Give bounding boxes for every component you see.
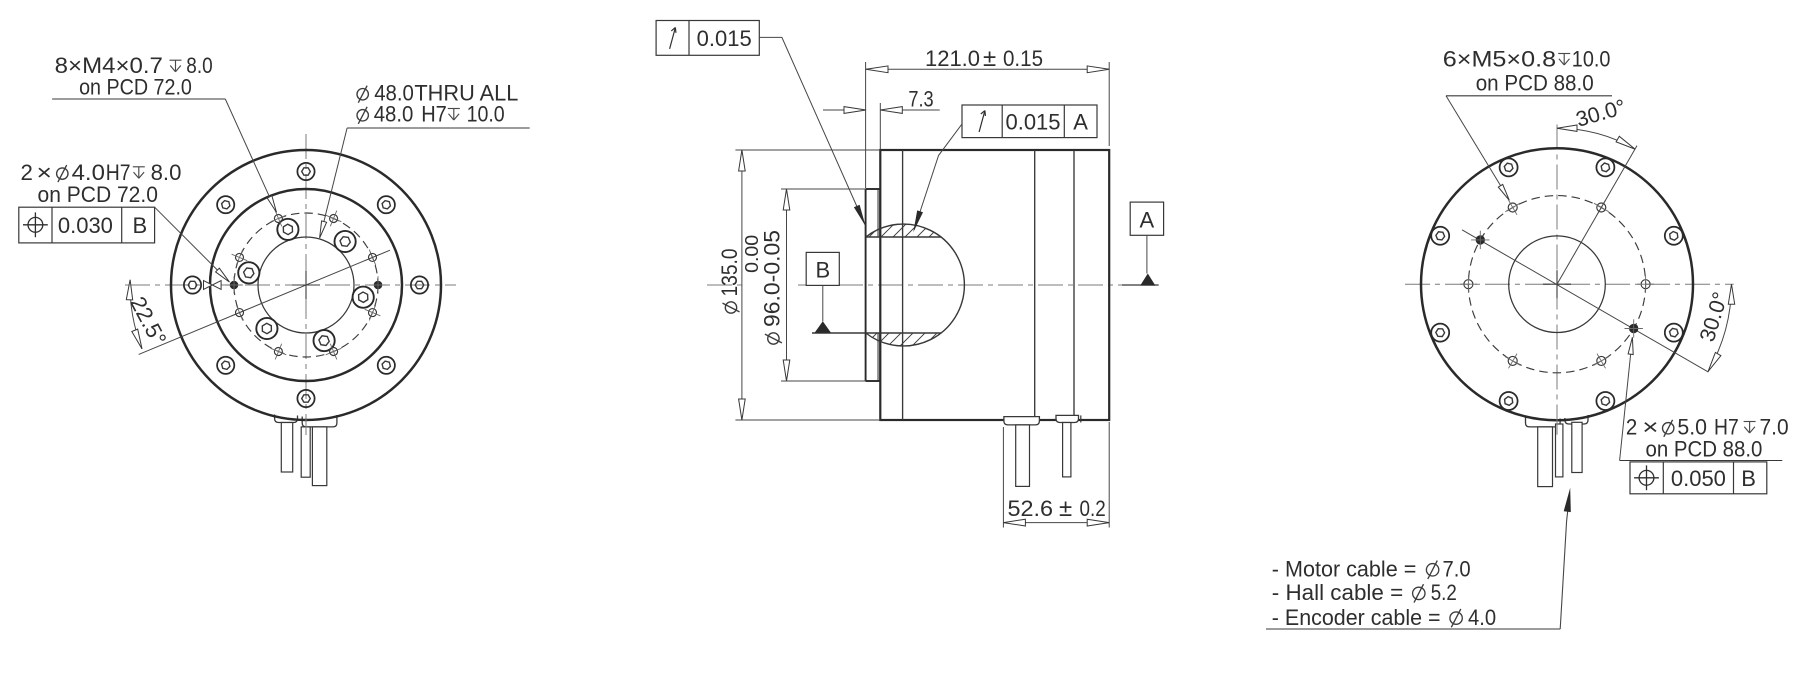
left view outer screw 2 at 45 deg bbox=[378, 196, 395, 213]
right view M5 tapped hole 2 at 60 deg bbox=[1594, 200, 1609, 215]
dim D96 dia symbol rotated bbox=[765, 333, 782, 344]
left view M4 tapped hole 2 at 67.5 deg bbox=[326, 211, 342, 227]
label 2xD4 FCF tolerance text bbox=[58, 213, 113, 238]
left view inner hex screw 2 at 108 deg bbox=[277, 219, 298, 240]
svg-text:121.0: 121.0 bbox=[925, 46, 980, 71]
cable note leader arrow bbox=[1564, 488, 1571, 512]
svg-text:5.2: 5.2 bbox=[1431, 580, 1457, 605]
right view outer screw 3 at 112.5 deg bbox=[1500, 158, 1518, 176]
FCF runout A tolerance text bbox=[1005, 110, 1060, 135]
dim 52.6 extension left bbox=[1002, 427, 1004, 528]
right view cable gland right bbox=[1565, 415, 1588, 424]
left view outer screw 6 at 225 deg bbox=[217, 357, 234, 374]
FCF runout 0.015 symbol bbox=[670, 28, 676, 49]
FCF runout 0.015 box bbox=[656, 21, 759, 56]
right view PCD88 bolt circle (dashed) bbox=[1468, 196, 1645, 373]
label 6xM5 leader arrow bbox=[1498, 184, 1509, 200]
svg-text:on PCD 88.0: on PCD 88.0 bbox=[1476, 71, 1594, 96]
left view inner hex screw 1 at 48 deg bbox=[335, 231, 356, 252]
left view dowel hole right (PCD72 0deg) bbox=[369, 276, 387, 294]
left view cable gland left bbox=[275, 415, 298, 423]
right view outer circle D135 bbox=[1421, 148, 1693, 420]
label 2xD4 FCF position symbol bbox=[23, 212, 48, 237]
label 2xD4 dia symbol bbox=[57, 165, 68, 182]
svg-text:0.015: 0.015 bbox=[1005, 110, 1060, 135]
right view 150-330 construction line bbox=[1462, 230, 1708, 372]
label D48 line1 text bbox=[374, 80, 518, 105]
left view 22.5 dim arrow top bbox=[126, 280, 132, 300]
svg-text:0.050: 0.050 bbox=[1671, 466, 1726, 491]
right view M5 tapped hole 3 at 120 deg bbox=[1505, 200, 1520, 215]
left view outer screw 3 at 90 deg bbox=[297, 163, 314, 180]
left view hall cable bbox=[281, 423, 292, 473]
cable note underline bbox=[1266, 628, 1560, 630]
svg-text:4.0: 4.0 bbox=[1468, 605, 1496, 630]
label 8xM4 line2 text bbox=[79, 75, 192, 100]
left view motor cable bbox=[312, 427, 326, 486]
right view 30deg top arc bbox=[1557, 128, 1635, 149]
middle view motor cable bbox=[1016, 425, 1030, 487]
label 6xM5 line1 depth value bbox=[1572, 47, 1611, 72]
svg-text:A: A bbox=[1073, 110, 1088, 135]
left view M4 tapped hole 1 at 22.5 deg bbox=[365, 250, 381, 266]
datum B box bbox=[806, 252, 839, 285]
right view hall cable bbox=[1572, 422, 1582, 472]
svg-text:10.0: 10.0 bbox=[467, 102, 505, 127]
right view dowel hole at 330deg bbox=[1625, 319, 1643, 337]
svg-text:96.0-0.05: 96.0-0.05 bbox=[760, 230, 785, 327]
left view inner hex screw 4 at 228 deg bbox=[256, 318, 277, 339]
cable note line3 bbox=[1272, 605, 1496, 630]
datum A box bbox=[1130, 202, 1163, 235]
svg-text:- Hall cable =: - Hall cable = bbox=[1272, 580, 1403, 605]
svg-text:10.0: 10.0 bbox=[1572, 47, 1611, 72]
left view inner hex screw 3 at 168 deg bbox=[238, 262, 259, 283]
dim D96 extension bottom bbox=[781, 380, 866, 382]
datum B stem bbox=[822, 285, 824, 321]
left view M4 tapped hole 8 at 337.5 deg bbox=[365, 305, 381, 321]
right view center cross bbox=[1543, 270, 1571, 298]
svg-text:7.0: 7.0 bbox=[1443, 557, 1471, 582]
left view inner hex screw 5 at 288 deg bbox=[314, 330, 335, 351]
right view 30deg right arrow top bbox=[1728, 284, 1734, 304]
label D48 line1 dia symbol bbox=[357, 86, 368, 103]
middle view inner line x1035 bbox=[1034, 150, 1036, 420]
middle view gray flange section strip top bbox=[877, 189, 881, 237]
right view 30deg top text bbox=[1573, 95, 1628, 132]
left view PCD72 bolt circle (dashed) bbox=[234, 213, 378, 357]
left view 22.5 deg dimension arc bbox=[130, 280, 142, 349]
label 8xM4 leader bbox=[225, 99, 274, 209]
svg-text:48.0: 48.0 bbox=[374, 102, 414, 127]
dim 121.0 extension left bbox=[865, 62, 867, 188]
middle view inner line x1074 bbox=[1073, 150, 1075, 420]
left view M4 tapped hole 5 at 202.5 deg bbox=[232, 305, 248, 321]
dim 7.3 text bbox=[908, 87, 933, 112]
svg-text:135.0: 135.0 bbox=[717, 249, 742, 297]
label 2xD5 depth symbol bbox=[1744, 422, 1756, 434]
label 2xD5 FCF tolerance text bbox=[1671, 466, 1726, 491]
label 2xD4 line2 text bbox=[38, 182, 158, 207]
dim D135 dia symbol rotated bbox=[723, 302, 740, 313]
dim 52.6 arrow right bbox=[1087, 519, 1109, 526]
left view horizontal centerline bbox=[125, 284, 456, 286]
middle view bore bottom line bbox=[812, 332, 941, 334]
middle view boss front face line bbox=[865, 189, 867, 381]
middle view hatched cap top bbox=[856, 222, 956, 238]
svg-text:0.015: 0.015 bbox=[697, 26, 752, 51]
right view vertical centerline lower overlay bbox=[1556, 418, 1558, 435]
right view encoder cable bbox=[1556, 424, 1563, 477]
middle view gray flange section strip bottom bbox=[877, 333, 881, 381]
right view outer screw 5 at 202.5 deg bbox=[1431, 324, 1449, 342]
cable note line2 bbox=[1272, 580, 1457, 605]
left view dowel hole left (PCD72 180deg) bbox=[225, 276, 243, 294]
right view 30deg right arrow bottom bbox=[1708, 353, 1721, 372]
left view M4 tapped hole 3 at 112.5 deg bbox=[271, 211, 287, 227]
svg-text:2: 2 bbox=[1626, 415, 1637, 440]
dim D96 line bbox=[786, 189, 788, 381]
label 2xD4 line1 prefix bbox=[21, 160, 52, 185]
right view 30deg right arc bbox=[1708, 284, 1731, 371]
left view center cross bbox=[292, 271, 320, 299]
dim 7.3 arrow left bbox=[844, 107, 866, 114]
right view motor cable bbox=[1538, 427, 1553, 487]
label 2xD4 leader bbox=[155, 207, 228, 280]
dim D135 arrow bottom bbox=[739, 399, 746, 420]
middle view boss top edge bbox=[866, 188, 881, 190]
middle view body outline bbox=[880, 150, 1109, 420]
right view vertical centerline bbox=[1556, 125, 1558, 435]
FCF runout 0.015 leader arrow bbox=[854, 205, 866, 226]
label 2xD4 line1 depth value bbox=[151, 160, 182, 185]
dim D96 extension top bbox=[781, 188, 866, 190]
label 8xM4 line1 depth value bbox=[186, 53, 212, 78]
left view outer screw 8 at 315 deg bbox=[378, 357, 395, 374]
cable note leader bbox=[1560, 497, 1569, 629]
FCF runout 0.015 text bbox=[697, 26, 752, 51]
datum A letter bbox=[1140, 208, 1155, 233]
FCF runout A datum text bbox=[1073, 110, 1088, 135]
svg-text:- Motor cable =: - Motor cable = bbox=[1272, 557, 1417, 582]
svg-text:±: ± bbox=[1059, 495, 1072, 522]
svg-text:52.6: 52.6 bbox=[1008, 496, 1054, 521]
middle view horizontal centerline bbox=[707, 284, 1159, 286]
right view outer screw 1 at 22.5 deg bbox=[1665, 227, 1683, 245]
dim D135 text bbox=[717, 249, 742, 297]
svg-text:B: B bbox=[815, 258, 830, 283]
right view dowel hole at 150deg bbox=[1471, 231, 1489, 249]
left view outer screw 1 at 0 deg bbox=[411, 276, 428, 293]
label 8xM4 depth symbol bbox=[170, 60, 182, 71]
svg-text:H7: H7 bbox=[421, 102, 447, 127]
right view horizontal centerline bbox=[1405, 283, 1734, 285]
left view outer screw 5 at 180 deg bbox=[184, 276, 201, 293]
dim 121.0 arrow right bbox=[1087, 66, 1109, 73]
dim 7.3 line right tail bbox=[880, 109, 939, 111]
dim 121.0 line bbox=[866, 68, 1109, 70]
label 2xD5 line1 mid bbox=[1677, 415, 1738, 440]
svg-text:A: A bbox=[1140, 208, 1155, 233]
dim D135 extension bottom bbox=[735, 419, 880, 421]
label 2xD5 FCF box bbox=[1630, 462, 1767, 494]
svg-text:0.2: 0.2 bbox=[1080, 496, 1106, 521]
label 6xM5 leader bbox=[1446, 96, 1508, 198]
svg-text:7.3: 7.3 bbox=[908, 87, 933, 112]
label D48 leader bbox=[322, 128, 348, 231]
middle view cable gland right bbox=[1056, 415, 1079, 422]
middle view hub circle arc bbox=[866, 224, 965, 346]
left view vertical centerline lower overlay bbox=[305, 419, 307, 435]
dim D96 upper tol text bbox=[741, 235, 762, 273]
svg-text:6×M5×0.8: 6×M5×0.8 bbox=[1443, 47, 1556, 72]
label 2xD4 FCF box bbox=[19, 207, 155, 243]
left view M4 tapped hole 7 at 292.5 deg bbox=[326, 344, 342, 360]
middle view encoder cable bbox=[1063, 423, 1071, 477]
dim 7.3 extension right bbox=[879, 103, 881, 149]
left view 22.5 deg text bbox=[125, 292, 171, 349]
dim D96 text bbox=[760, 230, 785, 327]
left view outer circle D135 bbox=[171, 150, 441, 420]
dim D135 line bbox=[741, 150, 743, 420]
label 6xM5 underline bbox=[1446, 95, 1612, 97]
label 2xD4 depth symbol bbox=[133, 167, 145, 179]
svg-text:0.030: 0.030 bbox=[58, 213, 113, 238]
label 8xM4 underline bbox=[52, 98, 225, 100]
left view runout butterfly arrows at pilot edge bbox=[204, 281, 222, 290]
label 6xM5 depth symbol bbox=[1558, 54, 1570, 66]
FCF runout 0.015 leader bbox=[759, 37, 865, 224]
cable note line1 bbox=[1272, 557, 1471, 582]
dim 52.6 line bbox=[1003, 522, 1109, 524]
label 2xD5 FCF datum letter bbox=[1741, 466, 1756, 491]
svg-text:on PCD 88.0: on PCD 88.0 bbox=[1646, 436, 1763, 461]
right view 60deg construction line bbox=[1557, 146, 1637, 285]
right view outer screw 2 at 67.5 deg bbox=[1596, 158, 1614, 176]
right view M5 tapped hole 1 at 0 deg bbox=[1637, 276, 1654, 293]
dim 121.0 text bbox=[925, 45, 1043, 72]
right view 30deg top arrow right bbox=[1616, 136, 1635, 149]
label D48 line2 text bbox=[374, 102, 447, 127]
left view outer screw 7 at 270 deg bbox=[297, 390, 314, 407]
svg-text:2: 2 bbox=[21, 160, 33, 185]
right view 30deg right text bbox=[1695, 289, 1733, 344]
left view outer screw 4 at 135 deg bbox=[217, 196, 234, 213]
datum A stem bbox=[1146, 235, 1148, 273]
label D48 leader arrow bbox=[320, 221, 327, 238]
label 2xD5 underline bbox=[1620, 460, 1783, 462]
dim D96 arrow bottom bbox=[783, 360, 790, 381]
right view outer screw 6 at 247.5 deg bbox=[1500, 392, 1518, 410]
right view outer screw 4 at 157.5 deg bbox=[1431, 227, 1449, 245]
svg-text:- Encoder cable =: - Encoder cable = bbox=[1272, 605, 1441, 630]
dim 7.3 arrow right bbox=[880, 107, 902, 114]
middle view inner line x903 bbox=[902, 150, 904, 420]
label 2xD5 leader arrow bbox=[1628, 337, 1633, 354]
label 2xD5 line1 depth value bbox=[1760, 415, 1789, 440]
FCF runout 0.015 A box bbox=[962, 105, 1097, 138]
svg-text:B: B bbox=[133, 213, 148, 238]
left view inner hex screw 6 at 348 deg bbox=[353, 287, 374, 308]
left view vertical centerline bbox=[305, 134, 307, 435]
label D48 underline bbox=[347, 127, 530, 129]
label D48 line2 depth value bbox=[467, 102, 505, 127]
label D48 line2 dia symbol bbox=[357, 107, 368, 124]
dim 52.6 text bbox=[1008, 495, 1106, 522]
left view M4 tapped hole 4 at 157.5 deg bbox=[232, 250, 248, 266]
datum B letter bbox=[815, 258, 830, 283]
middle view boss bottom edge bbox=[866, 380, 881, 382]
left view pilot circle D96 bbox=[210, 189, 402, 381]
svg-text:on PCD 72.0: on PCD 72.0 bbox=[79, 75, 192, 100]
middle view bore top line bbox=[866, 236, 941, 238]
svg-text:on PCD 72.0: on PCD 72.0 bbox=[38, 182, 158, 207]
left view cable gland right bbox=[302, 415, 337, 427]
dim 7.3 line left tail bbox=[823, 109, 866, 111]
svg-text:B: B bbox=[1741, 466, 1756, 491]
label 8xM4 line1 text bbox=[55, 53, 163, 78]
dim 121.0 extension right bbox=[1108, 62, 1110, 146]
middle view bottom step tick bbox=[1080, 415, 1082, 422]
label 2xD4 FCF datum letter bbox=[133, 213, 148, 238]
label 6xM5 line1 text bbox=[1443, 47, 1556, 72]
label 2xD5 leader bbox=[1620, 344, 1632, 461]
datum A baseline segment bbox=[1122, 284, 1159, 286]
label 2xD5 FCF position symbol bbox=[1634, 465, 1659, 490]
left view 22.5 dim arrow bottom bbox=[132, 329, 142, 349]
FCF runout A leader arrow bbox=[913, 210, 923, 232]
label 2xD5 line2 text bbox=[1646, 436, 1763, 461]
label 2xD5 dia symbol bbox=[1663, 420, 1674, 437]
FCF runout A symbol bbox=[979, 111, 985, 132]
svg-text:±: ± bbox=[983, 45, 996, 72]
dim 52.6 arrow left bbox=[1003, 519, 1025, 526]
dim 52.6 extension right bbox=[1108, 422, 1110, 528]
right view outer screw 8 at 337.5 deg bbox=[1665, 324, 1683, 342]
label 2xD5 line1 prefix bbox=[1626, 415, 1659, 440]
dim D96 arrow top bbox=[783, 189, 790, 210]
right view M5 tapped hole 6 at 300 deg bbox=[1594, 354, 1609, 369]
left view 22.5 deg construction line bbox=[139, 250, 390, 354]
right view bore circle D48 bbox=[1509, 236, 1606, 333]
datum B triangle bbox=[815, 321, 831, 332]
label 2xD4 line1 mid bbox=[72, 160, 131, 185]
right view cable gland left bbox=[1526, 416, 1561, 427]
dim D135 extension top bbox=[735, 149, 880, 151]
FCF runout A leader bbox=[914, 124, 962, 230]
right view M5 tapped hole 5 at 240 deg bbox=[1505, 354, 1520, 369]
middle view hatched cap bottom bbox=[850, 332, 962, 348]
right view 30deg top arrow left bbox=[1557, 125, 1577, 131]
label 2xD4 leader arrow bbox=[216, 268, 230, 282]
label 6xM5 line2 text bbox=[1476, 71, 1594, 96]
right view M5 tapped hole 4 at 180 deg bbox=[1460, 276, 1477, 293]
label 8xM4 leader arrow bbox=[267, 196, 276, 213]
label D48 line2 depth symbol bbox=[448, 109, 460, 121]
middle view cable gland left bbox=[1004, 417, 1040, 425]
dim 121.0 arrow left bbox=[866, 66, 888, 73]
svg-text:7.0: 7.0 bbox=[1760, 415, 1789, 440]
dim D135 arrow top bbox=[739, 150, 746, 171]
right view outer screw 7 at 292.5 deg bbox=[1596, 392, 1614, 410]
datum A triangle bbox=[1140, 274, 1155, 286]
svg-text:0.15: 0.15 bbox=[1003, 46, 1043, 71]
left view bore circle D48 bbox=[258, 237, 354, 333]
left view M4 tapped hole 6 at 247.5 deg bbox=[271, 344, 287, 360]
left view encoder cable bbox=[301, 427, 310, 477]
